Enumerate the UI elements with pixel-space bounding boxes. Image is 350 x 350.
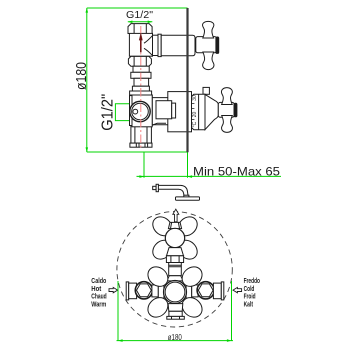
svg-text:30: 30 (192, 95, 198, 101)
shower arm nub (153, 186, 156, 189)
right pipe (213, 283, 221, 299)
diverter petal NE (174, 213, 201, 240)
dimension Min-Max extension right (187, 153, 189, 178)
pipe collar lines (169, 265, 182, 267)
outlet tube (169, 311, 182, 316)
left connector step1 (152, 285, 158, 297)
thermo handle arm down (222, 116, 233, 133)
diverter skirt (167, 248, 184, 256)
diverter petal NW (149, 213, 176, 240)
diverter hub (165, 228, 184, 247)
hex nut top flats (134, 24, 146, 34)
branch neck to wall (153, 35, 159, 55)
right pipe end cap (221, 282, 224, 300)
connecting pipe (169, 263, 182, 276)
mixer hub outer (164, 281, 187, 304)
shower head (176, 197, 200, 200)
svg-text:Cold: Cold (244, 286, 255, 293)
svg-text:Min 50-Max 65: Min 50-Max 65 (193, 164, 280, 178)
extension right (231, 281, 233, 341)
left union nut circle (135, 282, 152, 299)
dial division line (198, 94, 200, 129)
handle hub (196, 37, 217, 53)
cartridge inner rect (156, 101, 172, 119)
extension left (117, 281, 119, 341)
base plate ticks (136, 143, 147, 147)
valve body (diverter) (129, 33, 152, 56)
handle arm down (203, 52, 214, 70)
arrowhead Min-Max left (139, 175, 144, 178)
right union nut circle (197, 282, 214, 299)
arrowhead ø180 down (86, 147, 89, 152)
safety button (203, 87, 209, 94)
left union hexagon (137, 284, 152, 297)
diverter hex band (166, 256, 183, 263)
dimension line (117, 340, 234, 342)
svg-text:G1/2": G1/2" (126, 10, 153, 21)
hot flow arrow (109, 287, 118, 292)
dimension ø180 extension line bottom (87, 151, 188, 153)
hex nut lower flats (134, 56, 146, 66)
svg-text:Freddo: Freddo (244, 278, 260, 285)
thermo far arm bar (234, 103, 237, 117)
right connector step1 (192, 285, 198, 297)
wall plate line (186, 8, 188, 152)
diverter petal SW (149, 236, 176, 263)
svg-text:Kalt: Kalt (244, 301, 254, 308)
port small circle (133, 109, 138, 114)
mixer petal NE (178, 263, 206, 291)
neck top/bottom lines (152, 98, 168, 125)
right union hexagon (198, 284, 213, 297)
arrowhead left (118, 339, 123, 342)
mixer cap flare (167, 276, 183, 281)
thermostat front plate (132, 95, 152, 126)
svg-text:°C: °C (192, 121, 198, 127)
ring nut (131, 72, 151, 78)
hex nut top (128, 24, 152, 34)
riser step (132, 86, 149, 91)
hex nut lower (128, 56, 151, 66)
port boss inner circle (132, 103, 149, 120)
arrowhead Min-Max right (188, 175, 193, 178)
temperature dial ring (192, 94, 206, 129)
base plate (130, 143, 152, 147)
thermo handle hub (218, 102, 234, 117)
svg-text:ø180: ø180 (73, 62, 90, 90)
hex band flats (171, 256, 179, 263)
diverter petal SE (174, 236, 201, 263)
cold flow arrow (233, 287, 242, 292)
svg-text:ø180: ø180 (168, 332, 182, 342)
dimension Min-Max extension left (143, 153, 145, 178)
cartridge block (168, 92, 192, 132)
dial tick marks (192, 104, 194, 120)
riser pipe (134, 78, 149, 86)
arrowhead G1/2 left (128, 21, 133, 24)
mixer hub inner (165, 282, 185, 302)
shoulder slab (130, 91, 152, 95)
adapter (133, 66, 149, 72)
internal passage curves (144, 36, 152, 56)
outlet lower walls (131, 126, 152, 144)
red centerline (140, 26, 142, 149)
port boss outer circle (130, 101, 150, 121)
svg-text:Chaud: Chaud (91, 294, 106, 301)
arrowhead right (227, 339, 232, 342)
diverter cap (168, 222, 181, 228)
up direction arrow (173, 209, 179, 222)
mixer petal SW (144, 294, 172, 322)
leader G1/2 port bracket (115, 104, 141, 121)
dimension ø180 extension line top (87, 7, 188, 9)
faceplate dashed circle (117, 212, 232, 327)
shower arm tube (158, 185, 188, 195)
plate chamfer (151, 123, 166, 125)
dimension G1/2 line top (128, 21, 153, 23)
bottom dimension ø180 (117, 281, 234, 341)
mixer skirt (168, 304, 183, 312)
svg-text:Froid: Froid (244, 294, 256, 301)
left pipe (129, 283, 137, 299)
outlet foot ticks (172, 316, 180, 319)
outlet foot (167, 316, 185, 319)
arrowhead ø180 up (86, 8, 89, 13)
svg-text:20: 20 (192, 112, 198, 118)
handle far arm bar (216, 37, 219, 53)
dimension Min-Max line (137, 175, 282, 177)
left connector step2 (158, 283, 164, 298)
arrowhead G1/2 right (148, 21, 153, 24)
svg-text:Hot: Hot (91, 286, 102, 293)
dial bell taper (205, 94, 218, 129)
svg-text:Warm: Warm (91, 301, 106, 308)
right connector step2 (186, 283, 192, 298)
dimension ø180 line (86, 8, 88, 152)
plate redrawn over block (132, 95, 152, 127)
cartridge bracket (172, 103, 176, 118)
shower arm flange (156, 184, 158, 191)
outlet pipe walls (135, 127, 147, 144)
svg-text:G1/2": G1/2" (99, 94, 116, 131)
branch flange (158, 34, 161, 56)
svg-text:Caldo: Caldo (91, 278, 106, 285)
handle stem through wall (161, 35, 195, 55)
diverter cap facets (171, 222, 180, 228)
thermo handle arm up (221, 88, 232, 105)
red flow arrow (139, 33, 142, 40)
left pipe end cap (126, 282, 129, 300)
mixer petal SE (178, 294, 206, 322)
left slab (130, 96, 133, 126)
handle arm up (203, 21, 214, 38)
mixer petal NW (144, 263, 172, 291)
shower arm connector (184, 195, 189, 197)
